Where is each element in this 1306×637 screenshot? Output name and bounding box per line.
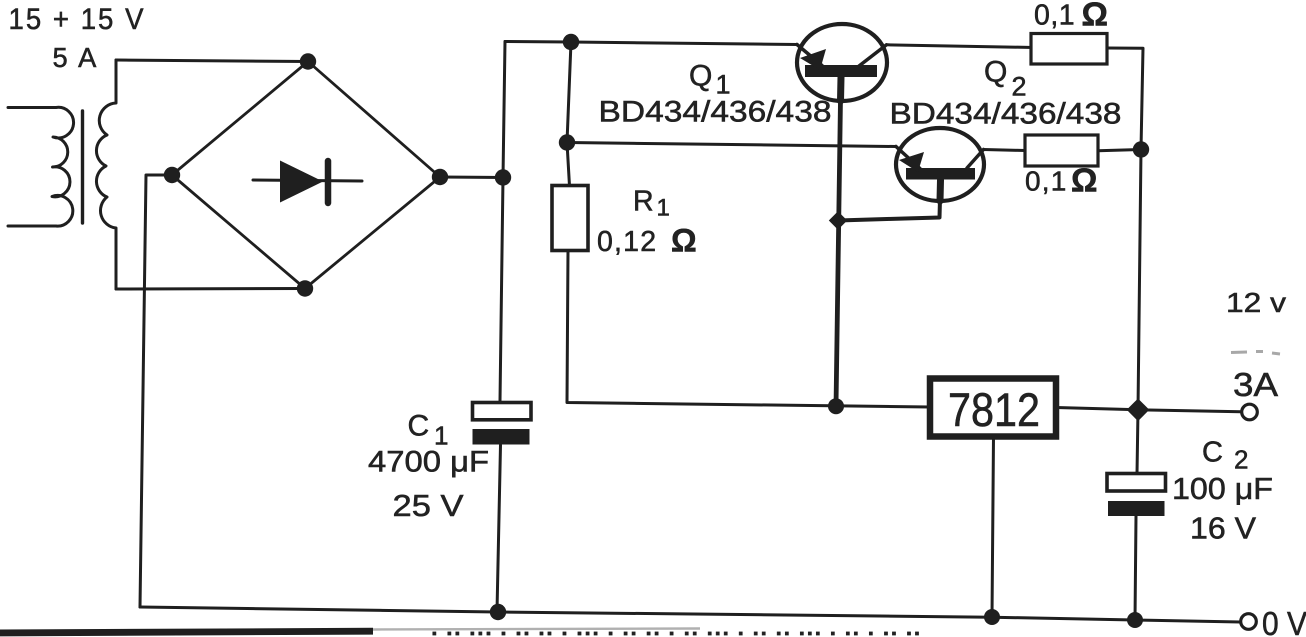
svg-text:100 μF: 100 μF	[1172, 471, 1273, 506]
svg-text:R: R	[633, 186, 654, 218]
svg-text:▪ ▪▪ ▪▪▪ ▪ ▪▪ ▪▪ ▪ ▪▪▪ ▪ ▪▪ ▪▪: ▪ ▪▪ ▪▪▪ ▪ ▪▪ ▪▪ ▪ ▪▪▪ ▪ ▪▪ ▪▪ ▪ ▪▪ ▪▪▪ …	[432, 626, 923, 637]
svg-text:BD434/436/438: BD434/436/438	[890, 98, 1122, 131]
svg-text:Ω: Ω	[1082, 0, 1108, 33]
svg-text:Q: Q	[984, 56, 1007, 89]
svg-text:16 V: 16 V	[1190, 511, 1256, 546]
svg-text:5 A: 5 A	[53, 42, 99, 73]
svg-text:Ω: Ω	[671, 223, 697, 259]
svg-text:Ω: Ω	[1071, 162, 1097, 199]
svg-text:1: 1	[657, 195, 670, 222]
svg-text:3A: 3A	[1233, 366, 1278, 403]
svg-text:7812: 7812	[948, 383, 1040, 436]
svg-text:0,12: 0,12	[597, 226, 657, 258]
svg-text:C: C	[1202, 437, 1223, 469]
svg-text:Q: Q	[689, 60, 712, 93]
svg-text:0,1: 0,1	[1025, 166, 1068, 197]
svg-text:BD434/436/438: BD434/436/438	[599, 96, 832, 129]
svg-text:25 V: 25 V	[393, 488, 464, 523]
svg-text:2: 2	[1234, 445, 1248, 475]
svg-text:0 V: 0 V	[1262, 605, 1306, 637]
svg-text:4700 μF: 4700 μF	[368, 446, 489, 479]
svg-text:0,1: 0,1	[1034, 0, 1075, 32]
svg-text:C: C	[408, 410, 430, 443]
svg-text:15 + 15 V: 15 + 15 V	[9, 3, 146, 36]
svg-text:12 v: 12 v	[1226, 287, 1286, 318]
